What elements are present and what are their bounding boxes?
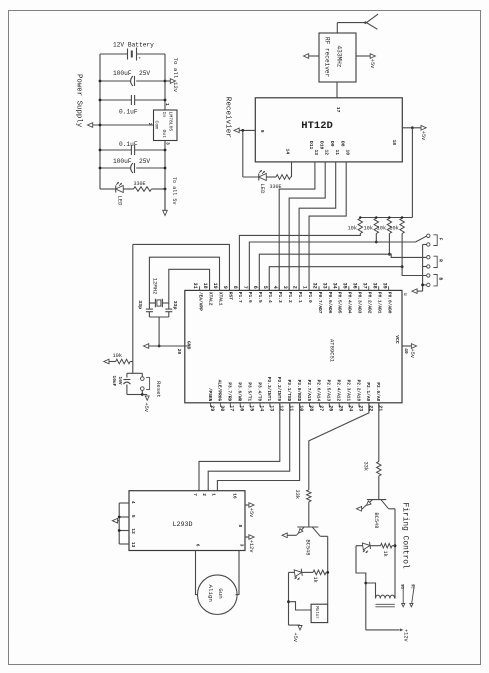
svg-text:11: 11 [334,150,340,156]
svg-text:29: 29 [209,405,215,411]
svg-text:19: 19 [212,283,218,289]
svg-text:P0.6/AD6: P0.6/AD6 [327,292,333,314]
svg-text:P2.4/A12: P2.4/A12 [336,380,342,402]
svg-text:VCC: VCC [394,335,400,344]
svg-text:P3.1/TXD: P3.1/TXD [286,380,292,402]
svg-text:P1.7: P1.7 [237,292,243,303]
svg-text:P2.1/A9: P2.1/A9 [365,382,371,401]
svg-text:P2.6/A14: P2.6/A14 [316,380,322,402]
svg-text:24: 24 [348,405,354,411]
svg-text:P3.0/RXD: P3.0/RXD [296,380,302,402]
svg-text:433MHz: 433MHz [336,46,343,68]
svg-text:NC: NC [409,584,413,589]
svg-text:P0.5/AD5: P0.5/AD5 [337,292,343,314]
svg-text:+5v: +5v [143,403,149,413]
svg-text:/PSEN: /PSEN [207,388,213,402]
svg-text:33: 33 [322,283,328,289]
svg-text:12MHz: 12MHz [152,278,159,295]
svg-text:Com: Com [154,121,160,130]
svg-text:17: 17 [229,405,235,411]
svg-text:F: F [438,238,444,241]
svg-text:P3.7/RD: P3.7/RD [227,382,233,401]
svg-text:10uF: 10uF [111,376,117,387]
svg-text:D11: D11 [308,141,314,150]
svg-text:Reset: Reset [155,381,162,398]
svg-text:33k: 33k [294,490,300,500]
svg-text:P1.0: P1.0 [307,292,313,303]
svg-text:37: 37 [361,283,367,289]
svg-text:1: 1 [302,286,308,289]
svg-text:35: 35 [341,283,347,289]
svg-text:D8: D8 [339,141,345,147]
svg-text:14: 14 [285,149,291,155]
svg-text:2: 2 [292,286,298,289]
svg-text:40: 40 [403,348,409,354]
svg-text:XTAL2: XTAL2 [207,292,213,306]
svg-text:RF receiver: RF receiver [324,37,331,78]
svg-text:28: 28 [308,405,314,411]
svg-text:P0.7/AD7: P0.7/AD7 [317,292,323,314]
svg-text:10: 10 [344,150,350,156]
svg-text:P0.3/AD3: P0.3/AD3 [357,292,363,314]
svg-text:20: 20 [176,349,182,355]
svg-text:16V: 16V [117,377,123,385]
svg-text:1k: 1k [312,577,318,583]
svg-text:GND: GND [186,341,192,350]
svg-text:Gun: Gun [217,588,224,598]
svg-text:4: 4 [272,286,278,289]
svg-text:AT89C51: AT89C51 [329,339,336,363]
svg-text:P3.6/WR: P3.6/WR [237,382,243,401]
svg-text:8: 8 [232,286,238,289]
svg-text:10: 10 [298,405,304,411]
svg-text:P1.3: P1.3 [277,292,283,303]
svg-text:12V Battery: 12V Battery [113,42,154,49]
svg-text:+5v: +5v [409,349,415,359]
svg-text:9: 9 [259,130,265,133]
svg-text:9: 9 [222,286,228,289]
svg-text:P1.6: P1.6 [247,292,253,303]
svg-text:16: 16 [232,493,238,499]
svg-text:Motor: Motor [314,606,318,619]
svg-text:10k: 10k [364,226,374,232]
svg-text:30: 30 [219,405,225,411]
svg-text:17: 17 [335,107,341,113]
svg-text:7: 7 [192,493,198,496]
svg-text:16: 16 [239,405,245,411]
svg-text:To all 5v: To all 5v [171,177,177,205]
svg-text:6: 6 [195,544,201,547]
svg-text:+12v: +12v [403,629,409,642]
svg-text:15: 15 [249,405,255,411]
svg-text:1: 1 [210,493,216,496]
svg-text:P0.4/AD4: P0.4/AD4 [347,292,353,314]
svg-text:+: + [138,56,141,61]
svg-text:18: 18 [202,283,208,289]
svg-text:LED: LED [259,184,266,195]
svg-text:5: 5 [130,515,136,518]
svg-text:18: 18 [391,140,397,146]
svg-text:NO: NO [399,584,403,589]
svg-text:11: 11 [288,405,294,411]
svg-text:13: 13 [268,405,274,411]
svg-text:In: In [161,112,167,118]
svg-text:Power Supply: Power Supply [75,74,83,128]
svg-text:27: 27 [318,405,324,411]
svg-text:LED: LED [117,196,124,207]
svg-text:33p: 33p [172,301,178,310]
svg-text:P2.7/A15: P2.7/A15 [306,380,312,402]
svg-text:BC548: BC548 [305,540,311,556]
svg-text:RST: RST [227,292,233,300]
svg-text:P2.5/A13: P2.5/A13 [326,380,332,402]
svg-text:34: 34 [332,283,338,289]
svg-text:21: 21 [377,405,383,411]
svg-text:P3.3/INT1: P3.3/INT1 [266,377,272,402]
svg-text:330E: 330E [134,181,146,187]
svg-text:2: 2 [201,493,207,496]
svg-text:Receivier: Receivier [223,97,231,138]
svg-text:Align: Align [207,585,214,602]
svg-text:3: 3 [165,142,171,145]
svg-text:+5v: +5v [292,633,298,643]
svg-text:12: 12 [278,405,284,411]
svg-text:10k: 10k [389,226,399,232]
svg-text:22: 22 [367,405,373,411]
svg-text:P3.2/INT0: P3.2/INT0 [276,377,282,402]
svg-text:P2.3/A11: P2.3/A11 [345,380,351,402]
svg-text:13: 13 [130,542,136,548]
svg-text:14: 14 [258,405,264,411]
svg-text:1k: 1k [382,551,388,557]
svg-text:P3.4/T0: P3.4/T0 [256,382,262,401]
svg-text:0.1uF: 0.1uF [119,109,138,116]
svg-text:31: 31 [192,283,198,289]
svg-text:P3.5/T1: P3.5/T1 [246,382,252,401]
svg-text:D9: D9 [329,141,335,147]
svg-text:P0.2/AD2: P0.2/AD2 [367,292,373,314]
svg-text:39: 39 [381,283,387,289]
svg-text:23: 23 [357,405,363,411]
svg-text:XTAL1: XTAL1 [217,292,223,306]
svg-text:33k: 33k [363,462,369,472]
svg-text:P2.2/A10: P2.2/A10 [355,380,361,402]
svg-text:100uF 25V: 100uF 25V [113,70,150,77]
svg-text:10k: 10k [348,226,358,232]
svg-text:3: 3 [238,544,244,547]
svg-text:P1.5: P1.5 [257,292,263,303]
svg-text:+5v: +5v [369,59,375,69]
svg-text:LM78L05: LM78L05 [168,112,174,132]
svg-text:D10: D10 [318,141,324,150]
svg-text:B: B [438,278,444,281]
svg-text:R: R [438,259,444,262]
svg-text:6: 6 [252,286,258,289]
svg-text:Firing Control: Firing Control [401,503,410,570]
svg-text:P1.2: P1.2 [287,292,293,303]
svg-text:P2.0/A8: P2.0/A8 [375,382,381,401]
svg-text:P0.1/AD1: P0.1/AD1 [377,292,383,314]
svg-text:10k: 10k [377,226,387,232]
svg-text:ALE/PROG: ALE/PROG [217,380,223,402]
svg-text:13: 13 [313,150,319,156]
svg-text:26: 26 [328,405,334,411]
svg-text:32: 32 [312,283,318,289]
svg-text:8: 8 [237,525,243,528]
svg-text:12: 12 [323,150,329,156]
svg-text:P1.4: P1.4 [267,292,273,303]
svg-text:u: u [402,293,408,296]
svg-text:12: 12 [130,528,136,534]
svg-text:L293D: L293D [173,521,193,529]
svg-text:1: 1 [164,103,170,106]
svg-text:38: 38 [371,283,377,289]
svg-text:BC548: BC548 [373,513,379,529]
svg-text:+5v: +5v [420,131,426,141]
svg-text:To all 12v: To all 12v [172,58,179,93]
svg-text:+5v: +5v [248,508,254,518]
svg-text:10k: 10k [113,353,123,359]
svg-text:7: 7 [242,286,248,289]
svg-text:36: 36 [351,283,357,289]
svg-text:P0.0/AD0: P0.0/AD0 [386,292,392,314]
svg-text:P1.1: P1.1 [297,292,303,303]
svg-text:+12v: +12v [248,540,254,553]
svg-text:3: 3 [282,286,288,289]
svg-text:/EA/VPP: /EA/VPP [197,292,203,311]
svg-text:4: 4 [130,501,136,504]
svg-text:Out: Out [161,130,167,139]
svg-text:5: 5 [262,286,268,289]
svg-text:33p: 33p [137,300,143,309]
svg-text:25: 25 [338,405,344,411]
svg-text:HT12D: HT12D [301,120,333,132]
